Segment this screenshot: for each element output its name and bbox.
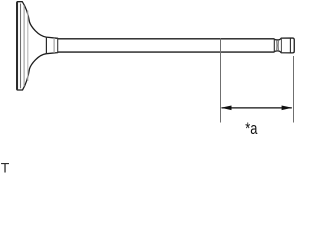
svg-text:*a: *a xyxy=(245,120,258,138)
dimension line xyxy=(222,107,292,109)
head left face line xyxy=(16,2,18,89)
extension line left xyxy=(220,38,222,122)
stem end line at groove xyxy=(273,39,275,52)
head face contour line 1 xyxy=(20,4,22,89)
neck collar line left xyxy=(45,37,47,54)
head face contour line 2 xyxy=(23,6,25,87)
dimension arrowhead right xyxy=(282,106,293,111)
dimension arrowhead left xyxy=(221,106,232,111)
neck collar line middle xyxy=(53,38,55,53)
groove right boundary line xyxy=(280,38,282,52)
valve body outline xyxy=(17,2,295,90)
svg-text:T: T xyxy=(1,160,10,175)
extension line right xyxy=(293,56,295,123)
head face contour line 3 xyxy=(27,11,29,82)
keeper groove inner line right xyxy=(277,40,279,51)
neck collar line right xyxy=(57,38,59,53)
keeper groove inner line left xyxy=(276,40,278,51)
tip chamfer line xyxy=(289,38,291,52)
